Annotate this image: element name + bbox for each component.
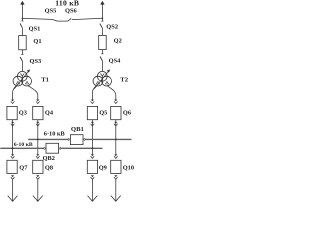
node A : left incoming line arrow: [20, 1, 24, 19]
tie breaker QB2: [46, 143, 59, 153]
svg-text:T2: T2: [120, 76, 128, 83]
svg-text:QS5: QS5: [45, 8, 57, 15]
breaker Q5: [87, 106, 97, 119]
breaker Q2: [99, 35, 107, 49]
junction Q5 lower bus: [92, 147, 94, 149]
wire : 110kV bridge left segment: [22, 17, 52, 20]
contact above Q7: [11, 154, 15, 158]
svg-text:Q8: Q8: [45, 164, 53, 171]
svg-text:QS1: QS1: [29, 25, 41, 32]
wire: [21, 28, 23, 36]
wire : T2 winding 2 lead: [107, 85, 116, 99]
junction Q3 lower bus: [12, 147, 14, 149]
breaker Q9: [87, 160, 97, 173]
junction Q6 upper bus: [115, 139, 117, 141]
tie breaker QB1: [70, 135, 83, 145]
disconnector QS6 blade: [68, 18, 72, 21]
wire bus to Q9: [91, 148, 93, 154]
contact left of QB2: [43, 147, 46, 150]
disconnector QS1: [20, 18, 24, 27]
svg-text:Q10: Q10: [123, 164, 134, 171]
contact below Q3: [11, 122, 15, 126]
svg-text:Q4: Q4: [45, 110, 54, 117]
svg-text:Q3: Q3: [19, 110, 27, 117]
feeder line Q9: [91, 180, 93, 201]
wire: [21, 61, 23, 72]
wire: [101, 28, 103, 36]
contact above Q8: [36, 154, 40, 158]
busbar lower left section: [0, 147, 43, 149]
contact above Q4: [36, 100, 40, 104]
contact above Q5: [91, 100, 95, 104]
svg-text:Q6: Q6: [123, 110, 132, 117]
breaker Q10: [111, 160, 121, 173]
contact below Q8: [36, 175, 40, 179]
svg-text:QS4: QS4: [109, 57, 122, 64]
feeder line Q10: [115, 180, 117, 201]
busbar upper right section: [86, 138, 132, 140]
wire : T1 winding 2 lead: [28, 85, 38, 99]
svg-text:110 кВ: 110 кВ: [55, 0, 79, 8]
contact below Q4: [36, 122, 40, 126]
svg-text:QB1: QB1: [71, 126, 84, 133]
contact above Q6: [114, 100, 118, 104]
busbar upper left section: [28, 138, 67, 140]
breaker Q8: [33, 160, 43, 173]
svg-text:Q9: Q9: [99, 164, 107, 171]
disconnector QS4: [100, 54, 104, 61]
breaker Q6: [111, 106, 121, 119]
feeder arrow Q7: [8, 196, 18, 202]
wire Q3 to bus: [12, 120, 14, 149]
contact right of QB2: [59, 147, 62, 150]
contact below Q7: [11, 175, 15, 179]
feeder arrow Q10: [111, 196, 121, 202]
wire: [21, 50, 23, 55]
svg-text:Q5: Q5: [99, 110, 107, 117]
wire: [101, 50, 103, 54]
disconnector QS5 blade: [52, 19, 57, 21]
wire: [101, 60, 103, 71]
svg-text:6-10 кВ: 6-10 кВ: [44, 131, 66, 138]
disconnector QS2: [22, 18, 103, 28]
svg-text:QB2: QB2: [43, 155, 55, 162]
svg-text:QS2: QS2: [106, 24, 118, 31]
svg-text:Q7: Q7: [19, 164, 28, 171]
node B : right incoming line arrow: [100, 1, 104, 19]
breaker Q7: [7, 160, 17, 173]
wire : T1 winding 1 lead: [13, 85, 17, 99]
wire Q5 through upper bus to lower bus: [91, 120, 93, 149]
wire : bridge right segment: [72, 18, 103, 19]
junction left bridge: [22, 18, 24, 20]
busbar lower right section: [61, 147, 102, 149]
contact below Q10: [114, 175, 118, 179]
wire bus to Q7: [12, 148, 14, 154]
feeder line Q7: [12, 180, 14, 201]
svg-text:Q1: Q1: [33, 38, 41, 45]
contact below Q5: [91, 122, 95, 126]
contact below Q6: [114, 122, 118, 126]
contact above Q9: [91, 154, 95, 158]
contact above Q3: [11, 100, 15, 104]
transformer T1: [13, 69, 31, 88]
disconnector QS3: [20, 54, 23, 61]
svg-text:Q2: Q2: [114, 38, 122, 45]
feeder arrow Q9: [88, 196, 98, 202]
svg-text:6-10 кВ: 6-10 кВ: [14, 142, 33, 148]
svg-text:QS6: QS6: [65, 8, 78, 15]
junction Q4 upper bus: [37, 139, 39, 141]
wire : T2 winding 1 lead: [92, 85, 96, 99]
svg-text:QS3: QS3: [30, 58, 42, 65]
contact below Q9: [91, 175, 95, 179]
breaker Q4: [33, 106, 43, 119]
breaker Q1: [19, 36, 27, 50]
breaker Q3: [7, 106, 17, 119]
junction right bridge: [102, 17, 104, 19]
wire Q6 to upper bus and Q10: [115, 120, 117, 155]
feeder line Q8: [37, 180, 39, 201]
transformer T2: [93, 69, 111, 88]
svg-text:T1: T1: [41, 76, 49, 83]
contact above Q10: [114, 154, 118, 158]
wire : bridge middle segment: [57, 20, 68, 22]
contact left of QB1: [68, 138, 71, 141]
wire Q4 through buses to Q8: [37, 120, 39, 155]
contact right of QB1: [83, 138, 86, 141]
feeder arrow Q8: [33, 196, 43, 202]
